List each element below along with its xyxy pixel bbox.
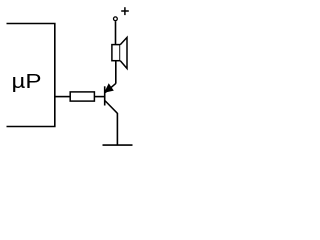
speaker LS1 horn bbox=[120, 37, 127, 68]
wire from emitter up to speaker bbox=[115, 61, 117, 84]
wire from collector down to ground bbox=[116, 113, 118, 145]
transistor Q1 (PNP) base bar bbox=[104, 86, 106, 105]
microprocessor box U1 (open on left side) bbox=[7, 24, 55, 127]
resistor R1 bbox=[70, 92, 94, 101]
svg-text:µP: µP bbox=[12, 71, 42, 93]
transistor Q1 collector lead bbox=[105, 100, 118, 113]
supply terminal (open circle) bbox=[114, 17, 118, 21]
speaker LS1 driver body bbox=[112, 45, 120, 61]
plus sign (+ supply) bbox=[121, 7, 129, 15]
ground bbox=[103, 144, 133, 146]
wire from speaker up to supply terminal bbox=[115, 21, 117, 44]
wire from resistor R1 to transistor base bbox=[94, 96, 104, 98]
wire from µP to resistor R1 bbox=[55, 96, 70, 98]
transistor Q1 emitter lead with arrow pointing into base bbox=[105, 83, 116, 92]
